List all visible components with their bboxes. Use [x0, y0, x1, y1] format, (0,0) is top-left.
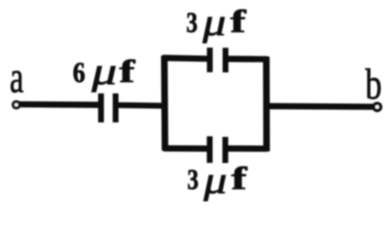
wire C1 to junction box — [117, 102, 167, 109]
capacitor C1 6uf right plate — [113, 93, 119, 122]
value label 3uf top — [186, 2, 246, 44]
wire top-left segment — [163, 55, 210, 62]
svg-text:μ: μ — [202, 2, 226, 44]
terminal a — [12, 100, 21, 109]
svg-text:b: b — [365, 62, 382, 109]
wire a to C1 — [20, 101, 101, 108]
wire top-right segment — [225, 56, 268, 62]
capacitor C3 3uf left plate — [207, 136, 213, 163]
wire bottom-left segment — [163, 145, 210, 151]
svg-text:3: 3 — [187, 164, 198, 196]
svg-text:6: 6 — [73, 57, 85, 89]
capacitor C2 3uf left plate — [207, 48, 213, 73]
terminal b — [372, 102, 382, 112]
value label 6uf — [73, 50, 136, 93]
svg-text:f: f — [231, 160, 247, 196]
value label 3uf bottom — [187, 160, 247, 202]
capacitor C1 6uf left plate — [98, 93, 104, 122]
wire bottom-right segment — [225, 145, 269, 151]
svg-text:μ: μ — [203, 160, 227, 202]
svg-text:f: f — [230, 3, 246, 39]
wire left vertical of parallel branch — [161, 56, 168, 151]
svg-text:μ: μ — [91, 50, 117, 93]
wire junction box to b — [267, 103, 374, 110]
capacitor C3 3uf right plate — [222, 137, 228, 163]
svg-text:a: a — [10, 54, 24, 102]
capacitor C2 3uf right plate — [223, 48, 229, 73]
svg-text:3: 3 — [186, 7, 197, 39]
wire right vertical of parallel branch — [263, 57, 270, 152]
svg-text:f: f — [119, 53, 135, 89]
